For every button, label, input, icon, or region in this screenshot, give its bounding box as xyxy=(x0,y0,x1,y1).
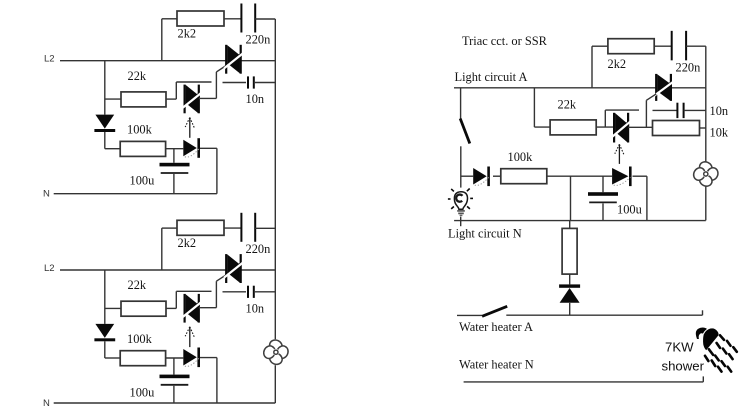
wire Water heater N end tick xyxy=(702,376,704,382)
wire heater branch lead (SSR) xyxy=(569,221,571,229)
svg-text:10k: 10k xyxy=(710,126,729,140)
triac (circuit 1) xyxy=(224,45,243,74)
wire left branch lower (circuit 1) xyxy=(104,132,106,149)
resistor R series (SSR) xyxy=(562,228,577,274)
wire lamp bottom lead (SSR) xyxy=(460,217,462,227)
wire 100k to D4 (SSR) xyxy=(547,175,612,177)
wire Water heater A line xyxy=(506,314,702,316)
wire 220n to rail (circuit 2) xyxy=(255,227,275,229)
resistor 22k (circuit 2) xyxy=(121,301,166,316)
svg-text:2k2: 2k2 xyxy=(178,27,197,41)
wire heater branch junction (SSR) xyxy=(570,176,572,220)
resistor 2k2 (circuit 2) xyxy=(177,220,224,235)
capacitor 220n (circuit 1) xyxy=(241,4,255,33)
svg-text:2k2: 2k2 xyxy=(608,57,627,71)
wire 100u bottom lead (SSR) xyxy=(602,203,604,220)
resistor 22k (circuit 1) xyxy=(121,92,166,107)
wire 2k2 to 220n (SSR) xyxy=(654,45,672,47)
wire gate net horizontal (circuit 2) xyxy=(176,290,211,292)
wire left branch upper (circuit 2) xyxy=(104,270,106,324)
wire 2k2 left lead (SSR) xyxy=(592,45,608,47)
wire 100u top lead (circuit 1) xyxy=(173,148,175,163)
wire Water heater A stub xyxy=(457,314,482,316)
svg-text:220n: 220n xyxy=(246,242,271,256)
wire 10k to rail (SSR) xyxy=(700,127,706,129)
wire R to D5 (SSR) xyxy=(569,274,571,284)
diode D4 (SSR) xyxy=(612,167,632,187)
wire 22k right lead (SSR) xyxy=(596,126,614,128)
svg-text:Light circuit N: Light circuit N xyxy=(448,226,522,240)
shower icon xyxy=(696,327,737,371)
svg-text:shower: shower xyxy=(662,359,705,374)
diode D3 (SSR) xyxy=(473,167,490,187)
wire gate diagonal (circuit 2) xyxy=(216,275,226,281)
wire L2 line right (circuit 1) xyxy=(241,60,276,62)
switch S1 (light) xyxy=(460,119,470,144)
diac (SSR) xyxy=(612,113,630,143)
wire gate to 10n (circuit 2) xyxy=(223,291,247,293)
svg-text:L2: L2 xyxy=(44,54,55,65)
svg-text:Triac cct. or SSR: Triac cct. or SSR xyxy=(462,34,548,48)
diode D1 (circuit 2) xyxy=(94,324,115,341)
svg-text:Water heater N: Water heater N xyxy=(459,358,534,372)
fan M1 (circuit 2) xyxy=(262,338,290,366)
node: left circuits shared right rail xyxy=(274,19,276,339)
wire gate vertical (SSR) xyxy=(645,100,647,127)
wire 100k left lead (circuit 2) xyxy=(105,357,120,359)
lamp (light bulb) xyxy=(448,189,473,216)
wire left branch lower (circuit 2) xyxy=(104,341,106,358)
resistor 10k (SSR) xyxy=(653,121,700,136)
svg-text:220n: 220n xyxy=(246,33,271,47)
wire D2 to corner (circuit 2) xyxy=(200,357,217,359)
wire corner down to N (circuit 1) xyxy=(216,148,218,193)
wire corner down to N (SSR) xyxy=(646,176,648,220)
svg-text:22k: 22k xyxy=(558,97,577,111)
svg-text:100u: 100u xyxy=(130,174,155,188)
diode D2 (circuit 2) xyxy=(183,348,200,368)
resistor 100k (circuit 1) xyxy=(120,141,165,156)
svg-text:22k: 22k xyxy=(128,278,147,292)
wire 22k node up (circuit 2) xyxy=(175,291,177,308)
resistor 2k2 (circuit 1) xyxy=(177,11,224,26)
capacitor 10n (circuit 2) xyxy=(248,286,254,298)
wire 22k right lead (circuit 1) xyxy=(166,98,176,100)
wire gate to 10n (circuit 1) xyxy=(223,82,247,84)
triac (circuit 2) xyxy=(224,254,243,283)
wire gate net horizontal (SSR) xyxy=(605,109,639,111)
wire switch branch lower (SSR) xyxy=(460,146,462,187)
svg-text:100k: 100k xyxy=(127,123,153,137)
wire 2k2 left lead (circuit 2) xyxy=(162,227,177,229)
wire gate net horizontal 2 (SSR) xyxy=(653,109,678,111)
svg-text:100k: 100k xyxy=(508,150,534,164)
gate arrow (circuit 2) xyxy=(185,327,194,347)
svg-text:Light circuit A: Light circuit A xyxy=(455,70,528,84)
svg-text:7KW: 7KW xyxy=(665,340,694,355)
wire D2 to corner (circuit 1) xyxy=(200,147,217,149)
svg-text:10n: 10n xyxy=(710,104,729,118)
svg-text:220n: 220n xyxy=(676,60,701,74)
wire 100k right lead (circuit 1) xyxy=(166,148,184,150)
capacitor 10n (SSR) xyxy=(677,103,683,118)
gate arrow (SSR) xyxy=(615,144,624,164)
wire 100k right lead (circuit 2) xyxy=(166,357,184,359)
wire 2k2 branch vertical (circuit 2) xyxy=(161,228,163,270)
capacitor 100u (circuit 1) xyxy=(160,163,190,173)
capacitor 10n (circuit 1) xyxy=(248,76,254,88)
svg-text:22k: 22k xyxy=(128,69,147,83)
svg-text:100k: 100k xyxy=(127,332,153,346)
wire 100u bottom lead (circuit 2) xyxy=(173,386,175,403)
wire L2 line right (circuit 2) xyxy=(241,269,276,271)
wire 22k left lead (circuit 2) xyxy=(105,307,121,309)
wire 2k2 to 220n (circuit 1) xyxy=(224,18,241,20)
wire 100u top lead (circuit 2) xyxy=(173,358,175,375)
wire L2 line left (circuit 2) xyxy=(60,269,226,271)
switch S2 (water heater) xyxy=(482,306,507,316)
wire gate vertical (circuit 2) xyxy=(215,281,217,308)
wire gate vertical (circuit 1) xyxy=(215,72,217,99)
wire 10n to rail (circuit 1) xyxy=(254,82,275,84)
svg-text:100u: 100u xyxy=(130,385,155,399)
wire Light circuit N line xyxy=(454,220,706,222)
diac (circuit 1) xyxy=(183,85,201,114)
wire gate diagonal (SSR) xyxy=(646,94,656,100)
fan M2 (SSR) xyxy=(692,160,720,188)
wire gate diagonal (circuit 1) xyxy=(216,66,226,72)
wire 22k node up (SSR) xyxy=(604,110,606,127)
wire 220n to rail (circuit 1) xyxy=(255,18,275,20)
wire D4 to corner (SSR) xyxy=(633,175,647,177)
diac (circuit 2) xyxy=(183,294,201,323)
wire 22k left lead (circuit 1) xyxy=(105,98,121,100)
wire gate net horizontal (circuit 1) xyxy=(176,81,211,83)
wire switch branch upper (SSR) xyxy=(460,88,462,119)
wire 10n to rail (circuit 2) xyxy=(254,291,275,293)
wire 2k2 branch vertical (circuit 1) xyxy=(161,19,163,61)
capacitor 100u (SSR) xyxy=(588,192,618,202)
wire diac right lead (circuit 2) xyxy=(199,307,217,309)
resistor 22k (SSR) xyxy=(550,120,596,135)
capacitor 220n (SSR) xyxy=(672,31,686,60)
svg-text:L2: L2 xyxy=(44,263,55,274)
wire Water heater N line xyxy=(464,381,704,383)
svg-text:10n: 10n xyxy=(246,92,265,106)
wire left branch (SSR) xyxy=(533,88,535,127)
wire D5 to heater A (SSR) xyxy=(569,303,571,315)
wire Light circuit A line left xyxy=(454,87,656,89)
wire 22k node up (circuit 1) xyxy=(175,82,177,99)
wire 10n to rail (SSR) xyxy=(684,109,706,111)
wire L2 line left (circuit 1) xyxy=(60,60,226,62)
diode D5 (SSR) xyxy=(559,284,580,302)
wire diac to 10k (SSR) xyxy=(628,126,652,128)
wire N line (circuit 1) xyxy=(54,193,217,195)
wire 100u bottom lead (circuit 1) xyxy=(173,174,175,194)
wire N line (circuit 2) xyxy=(54,402,276,404)
svg-text:10n: 10n xyxy=(246,301,265,315)
svg-text:N: N xyxy=(43,189,50,200)
capacitor 100u (circuit 2) xyxy=(160,375,190,385)
wire D3 to 100k (SSR) xyxy=(493,175,501,177)
wire 2k2 to 220n (circuit 2) xyxy=(224,227,241,229)
resistor 100k (circuit 2) xyxy=(120,351,165,366)
wire corner down to N (circuit 2) xyxy=(216,358,218,403)
capacitor 220n (circuit 2) xyxy=(241,213,255,242)
wire 2k2 left lead (circuit 1) xyxy=(162,18,177,20)
triac (SSR) xyxy=(654,74,673,101)
wire left branch upper (circuit 1) xyxy=(104,61,106,115)
node: SSR right rail xyxy=(705,46,707,161)
diode D2 (circuit 1) xyxy=(183,138,200,158)
wire 220n to rail (SSR) xyxy=(686,45,706,47)
wire diac right lead (circuit 1) xyxy=(199,97,217,99)
wire 22k left lead (SSR) xyxy=(534,126,550,128)
svg-text:N: N xyxy=(43,398,50,409)
resistor 100k (SSR) xyxy=(501,169,547,184)
gate arrow (circuit 1) xyxy=(185,118,194,138)
wire 2k2 branch vertical (SSR) xyxy=(591,46,593,88)
wire Light circuit A line right xyxy=(671,87,706,89)
diode D1 (circuit 1) xyxy=(94,115,115,132)
svg-text:Water heater A: Water heater A xyxy=(459,320,533,334)
wire 22k right lead (circuit 2) xyxy=(166,307,176,309)
wire 100k row left lead (SSR) xyxy=(461,175,473,177)
wire 100k left lead (circuit 1) xyxy=(105,148,120,150)
svg-text:100u: 100u xyxy=(617,203,642,217)
wire 100u top lead (SSR) xyxy=(602,176,604,192)
resistor 2k2 (SSR) xyxy=(608,39,654,54)
svg-text:2k2: 2k2 xyxy=(178,236,197,250)
wire Water heater A end tick xyxy=(702,310,704,315)
